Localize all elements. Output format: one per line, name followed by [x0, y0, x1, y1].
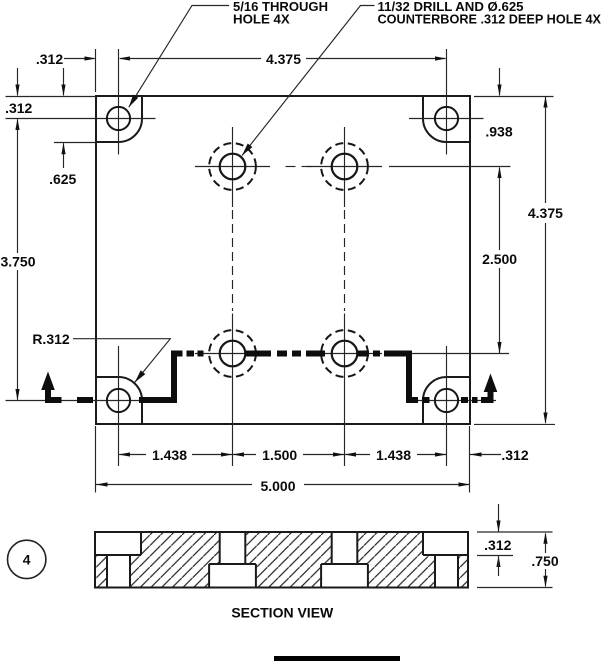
svg-text:.750: .750 [531, 553, 558, 569]
svg-text:4: 4 [23, 552, 31, 568]
svg-text:5.000: 5.000 [260, 478, 295, 494]
svg-text:1.438: 1.438 [152, 447, 187, 463]
svg-text:4.375: 4.375 [266, 51, 301, 67]
svg-text:.938: .938 [485, 123, 512, 139]
svg-text:.312: .312 [36, 51, 63, 67]
svg-text:.312: .312 [501, 447, 528, 463]
svg-text:HOLE 4X: HOLE 4X [233, 12, 290, 27]
svg-text:3.750: 3.750 [0, 253, 35, 269]
svg-text:.625: .625 [49, 171, 76, 187]
svg-text:1.438: 1.438 [376, 447, 411, 463]
svg-text:COUNTERBORE .312 DEEP HOLE 4X: COUNTERBORE .312 DEEP HOLE 4X [378, 12, 602, 27]
svg-text:.312: .312 [484, 537, 511, 553]
svg-text:SECTION VIEW: SECTION VIEW [231, 604, 334, 620]
svg-text:4.375: 4.375 [528, 205, 563, 221]
svg-text:1.500: 1.500 [262, 447, 297, 463]
svg-text:.312: .312 [5, 100, 32, 116]
svg-text:R.312: R.312 [32, 331, 70, 347]
svg-text:2.500: 2.500 [482, 251, 517, 267]
